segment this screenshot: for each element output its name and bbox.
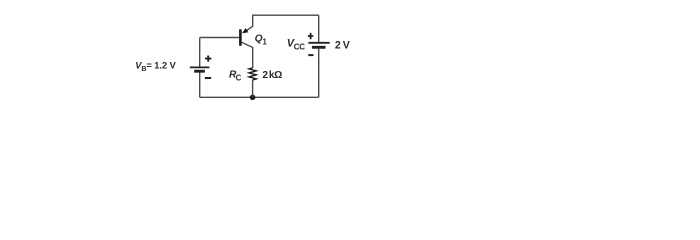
- wire: left vertical from base lead corner down to VB + plate: [199, 38, 201, 67]
- wire: right vertical from VCC - plate down to bottom rail: [318, 49, 320, 98]
- transistor Q1: emitter lead with riser to top rail: [246, 15, 253, 31]
- battery VB: minus sign: [205, 77, 211, 79]
- battery VB: plus sign: [205, 56, 211, 62]
- battery VB: long positive plate: [190, 66, 210, 68]
- wire: right vertical from top rail down to VCC + plate: [318, 15, 320, 42]
- wire: top rail from Q1 emitter riser to VCC positive terminal: [253, 14, 319, 16]
- battery VCC: long positive plate: [308, 42, 329, 44]
- svg-text:2V: 2V: [335, 40, 350, 52]
- transistor Q1: collector lead down to RC: [241, 42, 252, 68]
- wire: base lead from left wire to Q1 base bar: [200, 37, 240, 39]
- transistor Q1: base bar: [239, 29, 242, 46]
- wire: RC bottom lead to junction node: [252, 80, 254, 97]
- transistor Q1: emitter arrowhead (PNP, pointing into base): [242, 28, 248, 33]
- battery VCC: short thick negative plate: [312, 46, 326, 49]
- resistor RC: zigzag body: [249, 68, 256, 80]
- wire: bottom rail: [200, 96, 319, 98]
- battery VCC: plus sign: [308, 33, 313, 39]
- wire: left vertical from VB - plate down to bottom rail: [199, 72, 201, 97]
- svg-text:2kΩ: 2kΩ: [262, 70, 282, 81]
- battery VCC: minus sign: [308, 54, 313, 56]
- node: junction of RC with bottom rail: [250, 95, 256, 101]
- battery VB: short thick negative plate: [194, 70, 205, 73]
